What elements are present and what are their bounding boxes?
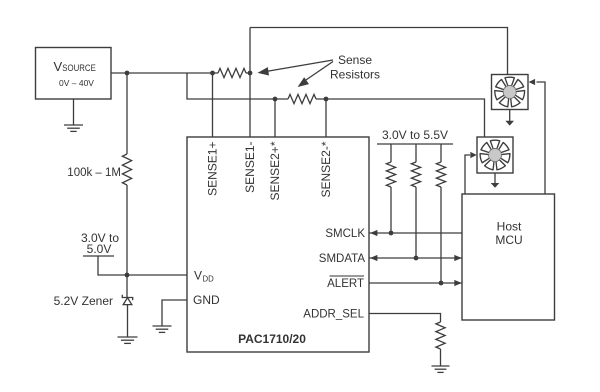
wire GND pin to ground xyxy=(162,300,187,326)
ground (zener) xyxy=(118,337,138,343)
junction node SENSE1- tap xyxy=(248,71,253,76)
junction node SMCLK pullup xyxy=(389,231,394,236)
callout arrow to R1 xyxy=(257,60,333,77)
svg-text:V: V xyxy=(54,59,63,74)
host MCU box xyxy=(462,194,555,320)
wire SENSE1- pin to top rail xyxy=(249,28,251,138)
wire SENSE1+ pin xyxy=(212,73,214,137)
junction node SENSE2+ tap xyxy=(273,97,278,102)
svg-text:V: V xyxy=(194,269,202,283)
wire ALERT xyxy=(369,280,462,286)
wire R ADDR_SEL to ground xyxy=(440,349,442,366)
fan 1 blades xyxy=(494,77,525,107)
ground (GND pin) xyxy=(153,326,172,332)
label Sense Resistors xyxy=(330,53,380,82)
resistor R pullup SMCLK xyxy=(386,144,395,233)
fan 1 box xyxy=(492,75,529,110)
svg-text:3.0V to 5.5V: 3.0V to 5.5V xyxy=(382,128,448,142)
svg-text:Host: Host xyxy=(497,220,522,234)
supply bar 5.0V xyxy=(83,255,114,257)
ground (ADDR_SEL) xyxy=(432,366,450,372)
wire host to fan 2 xyxy=(465,152,477,194)
svg-text:SMDATA: SMDATA xyxy=(319,253,366,265)
svg-text:SMCLK: SMCLK xyxy=(325,228,365,240)
junction node SENSE1+ tap xyxy=(210,71,215,76)
resistor R ADDR_SEL xyxy=(436,322,445,349)
resistor 100k-1M xyxy=(122,154,131,185)
pin label ALERT (with overline) xyxy=(327,276,364,290)
IC U1 PAC1710/20 box xyxy=(187,137,369,352)
wire VSOURCE to ground xyxy=(73,99,75,125)
label Host MCU xyxy=(495,220,522,248)
svg-text:ALERT: ALERT xyxy=(327,278,364,290)
wire host to fan 1 xyxy=(529,79,545,194)
svg-text:5.2V Zener: 5.2V Zener xyxy=(54,294,113,308)
svg-text:GND: GND xyxy=(193,293,220,307)
wire ADDR_SEL xyxy=(369,314,441,323)
fan 1 hub xyxy=(503,86,516,99)
wire SENSE2- pin xyxy=(325,99,327,137)
wire VSOURCE output to R1 xyxy=(111,72,218,74)
svg-text:Sense: Sense xyxy=(338,53,372,67)
wire junction down to R bias xyxy=(126,73,128,154)
wire SMDATA xyxy=(369,255,462,261)
svg-text:Resistors: Resistors xyxy=(330,68,380,82)
pullup supply bar xyxy=(377,143,453,145)
callout arrow to R2 xyxy=(295,62,333,91)
svg-text:SENSE1-: SENSE1- xyxy=(243,142,257,193)
svg-text:MCU: MCU xyxy=(495,233,522,247)
fan 2 hub xyxy=(489,149,502,162)
fan 1 airflow arrow xyxy=(505,110,514,126)
svg-text:SENSE2+*: SENSE2+* xyxy=(268,141,282,200)
junction node SMDATA pullup xyxy=(414,256,419,261)
wire SMCLK xyxy=(369,230,462,236)
junction node VSOURCE output xyxy=(125,71,130,76)
svg-text:5.0V: 5.0V xyxy=(87,242,112,256)
svg-text:SOURCE: SOURCE xyxy=(62,63,96,73)
sense resistor R2 xyxy=(288,94,316,103)
zener diode D1 5.2V xyxy=(122,295,132,337)
voltage source VSOURCE box xyxy=(36,48,112,100)
fan 2 box xyxy=(477,137,513,173)
resistor R pullup ALERT xyxy=(436,144,445,283)
wire R bias to VDD node xyxy=(126,185,128,275)
resistor R pullup SMDATA xyxy=(411,144,420,258)
wire VDD node to zener xyxy=(126,275,128,298)
label 3.0V to 5.0V xyxy=(81,231,119,256)
svg-text:ADDR_SEL: ADDR_SEL xyxy=(303,309,364,321)
sense resistor R1 xyxy=(218,68,246,77)
VSOURCE label xyxy=(54,59,96,74)
junction node SENSE2- tap xyxy=(324,97,329,102)
fan 2 blades xyxy=(480,140,511,170)
junction node ALERT pullup xyxy=(439,281,444,286)
wire SENSE2+ pin xyxy=(274,99,276,137)
wire top rail to fan 1 xyxy=(250,28,508,75)
wire R1 to SENSE1- node xyxy=(246,72,250,74)
junction node VDD xyxy=(125,273,130,278)
wire R2 to fan 2 xyxy=(316,99,485,137)
svg-text:0V – 40V: 0V – 40V xyxy=(59,78,94,88)
pin label VDD xyxy=(194,269,214,284)
wire branch to R2 xyxy=(187,73,288,99)
ground (VSOURCE) xyxy=(64,125,83,131)
svg-text:SENSE1+: SENSE1+ xyxy=(206,142,220,196)
svg-text:PAC1710/20: PAC1710/20 xyxy=(238,332,306,346)
svg-text:DD: DD xyxy=(203,275,215,284)
wire supply to VDD xyxy=(98,256,187,275)
svg-text:100k – 1M: 100k – 1M xyxy=(67,167,121,179)
svg-text:SENSE2-*: SENSE2-* xyxy=(319,141,333,197)
fan 2 airflow arrow xyxy=(491,173,500,188)
